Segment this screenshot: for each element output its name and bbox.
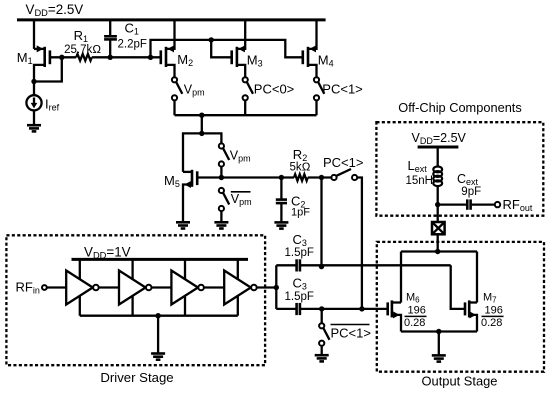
driver VDD rail — [72, 258, 249, 261]
switch PC0 under M3 — [243, 77, 253, 115]
wire pad to output stage — [437, 234, 439, 251]
label PC1 series — [323, 155, 363, 170]
svg-text:1.5pF: 1.5pF — [285, 291, 314, 303]
wire M1 gate to R1 with feedback to drain — [31, 55, 76, 85]
svg-text:PC<0>: PC<0> — [254, 82, 294, 97]
svg-text:0.28: 0.28 — [404, 317, 425, 329]
label R1 — [74, 28, 88, 44]
label 5kohm — [290, 162, 311, 174]
svg-text:PC<1>: PC<1> — [331, 326, 371, 341]
wire M3 gate jog — [209, 37, 232, 57]
label 2.2pF — [118, 39, 147, 51]
capacitor C3 upper — [276, 259, 450, 271]
VDD power rail — [17, 18, 326, 21]
label RFout — [503, 197, 533, 213]
svg-text:15nH: 15nH — [406, 175, 434, 187]
capacitor Cext — [467, 199, 470, 209]
wire M5 gate line to R2 — [197, 175, 294, 180]
svg-text:Output Stage: Output Stage — [422, 374, 498, 389]
svg-text:5kΩ: 5kΩ — [290, 162, 311, 174]
ground output stage — [432, 355, 446, 361]
label 9pF — [461, 186, 481, 198]
ground driver stage — [151, 354, 165, 360]
transistor M3 — [232, 20, 246, 77]
transistor M4 — [303, 20, 317, 77]
wire A1 to A2 — [99, 286, 119, 288]
wire Cext to RFout — [472, 203, 495, 205]
terminal RFin — [42, 285, 66, 290]
off-chip components box — [376, 122, 543, 216]
label 1.5pF lower — [285, 291, 314, 303]
label 25.7k — [64, 44, 101, 56]
svg-text:PC<1>: PC<1> — [323, 155, 363, 170]
capacitor C3 lower — [276, 303, 387, 315]
svg-text:Driver Stage: Driver Stage — [100, 370, 173, 385]
transistor M1 — [34, 20, 50, 96]
svg-text:196: 196 — [408, 305, 426, 317]
inverter A2 — [119, 259, 152, 315]
label R2 — [293, 147, 307, 163]
switch Vpm upper — [219, 143, 229, 177]
output stage box — [377, 242, 544, 372]
switch Vpm under M2 — [172, 77, 182, 115]
driver bottom rail — [80, 313, 238, 354]
svg-text:VDD=2.5V: VDD=2.5V — [26, 2, 84, 18]
label Vpm — [184, 83, 205, 98]
transistor M5 — [183, 170, 197, 222]
bond pad — [432, 222, 445, 234]
resistor R2 — [294, 174, 308, 180]
label VDD=2.5V — [26, 2, 84, 18]
resistor R1 — [76, 54, 92, 61]
label Iref — [45, 97, 60, 113]
label 1.5pF upper — [285, 247, 314, 259]
ground under Vpm-bar switch — [214, 222, 228, 228]
label PC1-bar — [331, 325, 371, 341]
label Driver Stage — [100, 370, 173, 385]
wire node to bond pad — [437, 205, 439, 222]
label Lext — [408, 158, 428, 174]
ground under C2 — [274, 222, 288, 228]
transistor M6 — [388, 300, 401, 331]
label Output Stage — [422, 374, 498, 389]
wire R1 to M2 gate — [92, 55, 161, 60]
wire R2 node to upper C3 line — [319, 178, 324, 270]
transistor M2 — [161, 20, 175, 77]
capacitor C1 — [104, 20, 117, 58]
label M6 196/0.28 — [404, 305, 427, 330]
label PC0 — [254, 82, 294, 97]
switch Vpm-bar — [219, 188, 229, 222]
label M1 — [17, 50, 33, 66]
wire M5 drain node — [183, 131, 221, 172]
wire M7 gate feed — [451, 265, 465, 309]
driver stage box — [6, 235, 265, 365]
wire node to Cext — [438, 203, 466, 205]
svg-text:PC<1>: PC<1> — [322, 82, 362, 97]
off-chip supply bar — [418, 147, 459, 167]
ground under Iref — [27, 125, 41, 131]
svg-text:9pF: 9pF — [461, 186, 481, 198]
label 15nH — [406, 175, 434, 187]
label Vpm mid — [230, 149, 251, 164]
label PC1 — [322, 82, 362, 97]
label RFin — [16, 280, 40, 296]
svg-text:Off-Chip Components: Off-Chip Components — [398, 100, 522, 115]
ground under M5 — [176, 222, 190, 228]
label VDD=1V — [84, 245, 131, 261]
wire inductor to output node — [435, 186, 440, 208]
svg-text:25.7kΩ: 25.7kΩ — [64, 44, 101, 56]
label VDD=2.5V off-chip — [412, 131, 467, 146]
wire driver output node — [257, 265, 279, 309]
inverter A4 — [224, 259, 256, 315]
label M7 196/0.28 — [481, 305, 504, 330]
label C2 — [291, 194, 305, 210]
wire output bottom rail — [401, 329, 477, 356]
label Off-Chip Components — [398, 100, 522, 115]
wire output top rail — [401, 249, 477, 303]
svg-text:1.5pF: 1.5pF — [285, 247, 314, 259]
svg-text:196: 196 — [485, 305, 503, 317]
label C1 — [125, 21, 139, 37]
wire A3 to A4 — [204, 286, 224, 288]
svg-text:0.28: 0.28 — [481, 317, 502, 329]
inductor Lext — [433, 167, 442, 187]
current source Iref — [26, 95, 41, 124]
label M2 — [177, 52, 193, 68]
inverter A3 — [171, 259, 204, 315]
label M7 — [483, 292, 497, 305]
wire bias distribution to M4 gate — [148, 40, 303, 60]
switch PC1 under M4 — [314, 77, 324, 115]
capacitor C2 — [276, 178, 287, 222]
svg-text:1pF: 1pF — [291, 207, 310, 219]
label M5 — [164, 173, 180, 189]
label C3 upper — [293, 232, 307, 248]
label Vpm-bar — [231, 192, 252, 207]
wire A2 to A3 — [152, 286, 172, 288]
label M6 — [406, 292, 420, 305]
transistor M7 — [465, 300, 477, 331]
ground under PC1-bar — [315, 355, 329, 361]
svg-text:VDD=2.5V: VDD=2.5V — [412, 131, 467, 146]
wire switch to M6 gate column — [357, 178, 364, 312]
switch PC1 series — [331, 169, 357, 180]
wire R2 to series switch — [308, 175, 332, 180]
terminal RFout — [495, 202, 500, 207]
label Cext — [457, 172, 479, 187]
wire switch common node — [175, 113, 317, 134]
inverter A1 — [66, 259, 99, 315]
label M3 — [247, 53, 263, 69]
svg-text:2.2pF: 2.2pF — [118, 39, 147, 51]
label M4 — [318, 53, 334, 69]
label C3 lower — [293, 276, 307, 292]
label 1pF — [291, 207, 310, 219]
switch PC1-bar — [319, 309, 329, 355]
